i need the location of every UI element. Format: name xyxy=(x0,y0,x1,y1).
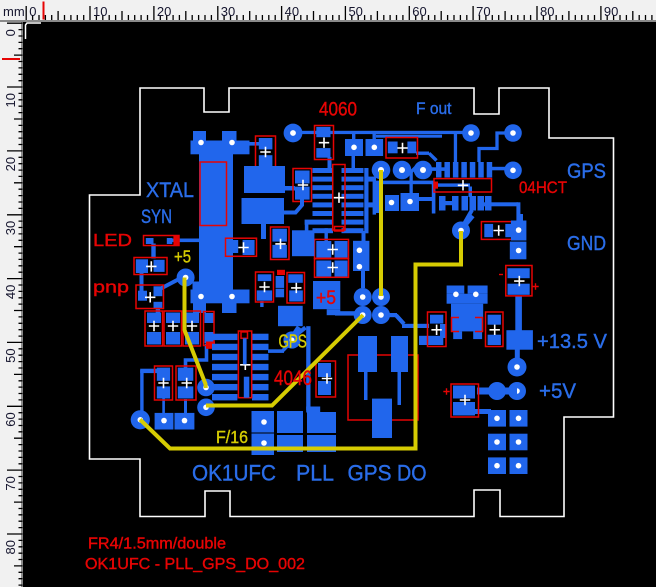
wire C9 to square pad xyxy=(515,296,522,331)
capacitor C6 row 1 xyxy=(147,313,161,324)
wire vertical below jog xyxy=(432,184,436,214)
wire 4046 pads down 1 xyxy=(364,371,368,400)
svg-text:60: 60 xyxy=(3,412,18,426)
wire left caps to square pads xyxy=(140,369,157,373)
IC U2 04HCT silkscreen xyxy=(434,179,492,192)
capacitor C2 xyxy=(295,171,310,184)
svg-text:GPS: GPS xyxy=(348,461,392,486)
wire GPS via to bus diagonal xyxy=(296,328,306,336)
capacitor C5 xyxy=(272,229,287,242)
svg-text:OK1UFC: OK1UFC xyxy=(192,461,276,486)
wire +5 via to xtal crown xyxy=(193,282,201,294)
top ruler ticks xyxy=(26,6,652,20)
left ruler ticks xyxy=(7,23,23,585)
svg-text:OK1UFC - PLL_GPS_DO_002: OK1UFC - PLL_GPS_DO_002 xyxy=(85,556,305,573)
LED footprint xyxy=(146,238,154,244)
F out via pads xyxy=(462,124,480,142)
wire from F out pad 2 stairs xyxy=(479,133,505,162)
copper pour polygon xyxy=(278,306,303,326)
svg-text:FR4/1.5mm/double: FR4/1.5mm/double xyxy=(88,536,226,553)
resistor R1 top xyxy=(388,142,398,154)
IC U3 GPS module left pins xyxy=(212,334,237,340)
IC U2 04HCT bottom pins xyxy=(439,196,446,211)
svg-text:F out: F out xyxy=(416,99,452,118)
capacitor C7 pair right xyxy=(178,368,194,381)
wire block B down xyxy=(261,223,266,239)
jumper square pads pair xyxy=(345,139,363,156)
wire yellow from via to cluster xyxy=(379,170,383,296)
connector pads bottom center col A xyxy=(252,411,275,433)
via pad row left xyxy=(284,124,303,143)
wire square to +13.5 via xyxy=(519,214,523,222)
silkscreen red fill mark 2 xyxy=(206,342,215,349)
IC U2 04HCT top pins xyxy=(436,162,442,178)
header pads three vias xyxy=(372,161,391,180)
capacitor C4 pair b xyxy=(316,261,331,277)
via pad F16 b xyxy=(197,399,215,417)
svg-text:0: 0 xyxy=(3,29,18,36)
via cluster 2x2 xyxy=(354,288,372,306)
wire GPS pads vertical bus xyxy=(306,326,310,410)
svg-text:40: 40 xyxy=(285,4,299,19)
left ruler cursor mark xyxy=(2,58,20,60)
pad column with holes xyxy=(511,221,527,241)
wire C2 to block B xyxy=(284,199,302,213)
wire second top trace xyxy=(376,135,442,138)
wire elbow down right of U2 xyxy=(469,187,473,198)
wire R1 to U2 pin diagonal xyxy=(416,152,429,155)
wire via to GND route elbow xyxy=(466,216,473,225)
wire 4046 pads down 2 xyxy=(398,371,402,405)
svg-text:80: 80 xyxy=(540,4,554,19)
resistor R7 xyxy=(484,224,493,237)
wire ladder row7 to C4 xyxy=(325,228,328,241)
wire pnp to cap xyxy=(156,307,160,313)
svg-text:10: 10 xyxy=(93,4,107,19)
+5V via pads xyxy=(488,382,506,400)
svg-text:pnp: pnp xyxy=(93,278,129,297)
capacitor C1 xyxy=(259,138,273,149)
wire cluster to jumper rect xyxy=(361,270,365,288)
wire xtal top bar to C1 xyxy=(246,142,260,146)
wire ladder bus down to pads xyxy=(362,231,366,241)
capacitor C9 xyxy=(488,315,501,325)
wire from F out pad 3 left xyxy=(490,167,505,171)
svg-text:20: 20 xyxy=(3,157,18,171)
svg-text:+5: +5 xyxy=(316,287,336,309)
wire from last pin right and down to pad column xyxy=(484,202,518,206)
svg-text:70: 70 xyxy=(3,476,18,490)
pad pair below R1 xyxy=(385,195,399,211)
svg-text:XTAL: XTAL xyxy=(146,178,194,202)
+13.5 supply square pad xyxy=(506,330,533,350)
wire vertical right of pads xyxy=(376,182,379,213)
capacitor C3 xyxy=(316,127,330,137)
+13.5 via pad xyxy=(508,358,527,377)
wire top bus from pad to F out pads xyxy=(293,131,470,134)
IC U4 4046 pads xyxy=(358,336,377,372)
IC U1 4060 left pins xyxy=(313,168,334,173)
small pads between xyxy=(276,276,285,288)
svg-text:4060: 4060 xyxy=(319,100,357,121)
wire C7b top to narrow comp xyxy=(186,344,207,369)
svg-text:90: 90 xyxy=(604,4,618,19)
silkscreen red fill mark xyxy=(277,270,285,275)
connector pads bottom center col B xyxy=(277,411,303,433)
svg-text:SYN: SYN xyxy=(141,207,172,228)
svg-text:80: 80 xyxy=(3,540,18,554)
resistor R3 xyxy=(227,240,238,253)
board outline xyxy=(90,88,614,517)
svg-text:30: 30 xyxy=(3,221,18,235)
polarity plus mark xyxy=(532,283,538,289)
wire LED pad down xyxy=(151,244,155,259)
svg-text:20: 20 xyxy=(157,4,171,19)
svg-text:DO: DO xyxy=(397,461,427,486)
wire +5 square to pad cluster xyxy=(327,309,341,315)
+5 supply square pad xyxy=(313,281,340,309)
via pad F16 a xyxy=(197,379,215,397)
wire cap to pad vertical 1 xyxy=(162,398,165,414)
svg-text:F/16: F/16 xyxy=(216,427,248,447)
svg-text:GND: GND xyxy=(567,232,606,255)
svg-text:30: 30 xyxy=(221,4,235,19)
wire yellow diagonal cluster to F16 via xyxy=(206,315,363,406)
svg-text:+5V: +5V xyxy=(539,380,576,403)
svg-text:+5: +5 xyxy=(174,247,191,267)
IC U1 4060 right pins xyxy=(342,168,364,173)
capacitor C6 row 3 xyxy=(185,313,199,324)
wire pin to via diagonal xyxy=(464,210,472,224)
via pad GND route xyxy=(452,222,470,240)
narrow component silkscreen xyxy=(205,313,214,323)
capacitor C8 xyxy=(430,315,443,324)
wire C10b to +5V vias xyxy=(477,388,497,395)
wire pads up to bus xyxy=(352,134,355,140)
capacitor C4 pair a xyxy=(316,241,331,258)
capacitor C11 polarized xyxy=(453,386,475,399)
wire ladder row to square pad xyxy=(305,220,313,225)
+5 via pad xyxy=(177,269,195,287)
svg-text:70: 70 xyxy=(476,4,490,19)
wire cluster to C8 diagonal xyxy=(383,313,397,317)
capacitor C10 polarized xyxy=(508,268,530,278)
polarity plus mark 2 xyxy=(443,388,449,394)
wire pad3 to U2 pin1 xyxy=(430,167,445,171)
svg-text:40: 40 xyxy=(3,285,18,299)
svg-text:60: 60 xyxy=(412,4,426,19)
IC U3 GPS silkscreen xyxy=(238,331,251,398)
wire block A to C2 xyxy=(283,186,295,191)
capacitor C7 pair left xyxy=(157,368,170,381)
svg-text:50: 50 xyxy=(348,4,362,19)
wire pad pair to pin diagonal xyxy=(412,163,421,172)
copper block B xyxy=(242,198,285,224)
connector J1 pin grid xyxy=(488,410,506,427)
capacitor C6 row 2 xyxy=(166,313,180,324)
resistor R5 xyxy=(288,274,303,283)
svg-text:50: 50 xyxy=(3,348,18,362)
top ruler cursor mark xyxy=(43,2,45,20)
wire comp38 stub down xyxy=(260,301,263,307)
svg-text:mm: mm xyxy=(3,4,25,19)
wire from F out pad 1 down xyxy=(454,133,457,163)
resistor R4 xyxy=(258,274,272,281)
resistor R2 xyxy=(136,259,148,273)
svg-text:10: 10 xyxy=(3,93,18,107)
top ruler background xyxy=(0,0,656,20)
wire yellow +5 via to F16 via a xyxy=(185,278,206,389)
wire from pad pair to right xyxy=(419,197,432,201)
jumper pad with two holes xyxy=(353,241,369,271)
polarity minus mark xyxy=(499,274,503,276)
transistor Q2 power xyxy=(447,286,465,294)
IC U3 GPS module right pins xyxy=(252,334,269,340)
wire R2 to pnp xyxy=(140,272,144,291)
IC U1 4060 silkscreen xyxy=(333,165,345,231)
wire pnp to +5 via diagonal xyxy=(160,279,180,290)
crystal XTAL footprint xyxy=(193,131,206,141)
left ruler background xyxy=(0,22,21,587)
IC U4 4046 silkscreen box xyxy=(348,355,418,420)
transistor pnp Q1 xyxy=(138,291,147,301)
svg-text:0: 0 xyxy=(29,4,36,19)
wire long horizontal from pads to U2 xyxy=(376,181,434,185)
svg-text:04HCT: 04HCT xyxy=(519,179,567,197)
GPS antenna via xyxy=(283,331,300,348)
jumper pads with holes xyxy=(155,413,174,430)
svg-text:+13.5 V: +13.5 V xyxy=(537,331,608,353)
wire C10 bottom to pin grid xyxy=(470,409,491,414)
wire cap to pad vertical 2 xyxy=(184,399,187,414)
wire LED to xtal body xyxy=(172,239,200,243)
wire yellow long GND route xyxy=(140,231,461,449)
copper block A xyxy=(244,166,285,193)
wire square pad down to ladder xyxy=(352,155,356,169)
connector pads bottom center col C xyxy=(307,412,336,433)
svg-text:GPS: GPS xyxy=(567,159,606,183)
svg-text:GPS: GPS xyxy=(279,330,307,351)
via pad bottom left xyxy=(131,410,150,429)
transistor Q2 silkscreen brackets xyxy=(452,318,460,332)
wire GPS via to pin row xyxy=(283,342,291,351)
wire C top to ladder xyxy=(328,157,332,173)
crystal silkscreen outline xyxy=(200,162,227,226)
svg-text:PLL: PLL xyxy=(296,461,334,486)
svg-text:LED: LED xyxy=(93,230,132,250)
workspace origin corner mark xyxy=(26,23,42,39)
copper square pad xyxy=(292,230,314,256)
resistor R6 xyxy=(318,363,331,377)
svg-text:4046: 4046 xyxy=(274,367,312,390)
